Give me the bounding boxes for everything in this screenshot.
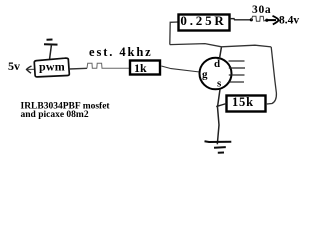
pwm box (picaxe 08m2 output) [34,58,69,77]
arrow to 8.4v supply [267,16,279,25]
resistor 1k (gate resistor) [130,61,160,76]
wire arrow from pwm to 5v [27,66,38,73]
svg-text:est. 4khz: est. 4khz [89,45,153,59]
wire 1k to gate [161,66,199,72]
wire 0.25R right lead [230,19,251,20]
wire pwm output to waveform [69,67,87,70]
resistor 0.25R (shunt) [179,13,230,30]
waveform symbol square wave [87,63,110,68]
svg-text:5v: 5v [8,59,20,73]
junction dot left of current waveform [250,18,253,21]
svg-text:1k: 1k [134,61,147,75]
junction dot right of current waveform [265,19,268,22]
wire pwm box top to ground [50,45,52,60]
svg-text:and picaxe 08m2: and picaxe 08m2 [21,110,89,120]
waveform symbol small ripple [251,16,266,21]
wire drain up to top node [220,47,222,59]
wire 15k left stub to source line [216,104,226,107]
wire source down to ground [217,89,220,144]
svg-text:g: g [202,69,208,81]
svg-text:s: s [217,78,222,90]
resistor 15k (drain-source bleeder) [227,95,266,111]
ground (bottom) [205,141,232,152]
svg-text:0.25R: 0.25R [180,13,226,28]
wire right vertical from drain node to 15k [267,47,277,104]
svg-text:30a: 30a [252,4,271,16]
svg-text:d: d [214,58,220,70]
svg-text:pwm: pwm [39,60,65,74]
ground (top, above pwm box) [44,40,58,45]
wire top horizontal drain node [170,44,271,47]
wire 0.25R left lead down to drain node [170,22,178,45]
svg-text:8.4v: 8.4v [279,15,299,27]
transistor Q1 IRLB3034PBF mosfet body [200,58,246,90]
wire waveform to 1k resistor [110,67,129,69]
svg-text:15k: 15k [232,95,254,109]
